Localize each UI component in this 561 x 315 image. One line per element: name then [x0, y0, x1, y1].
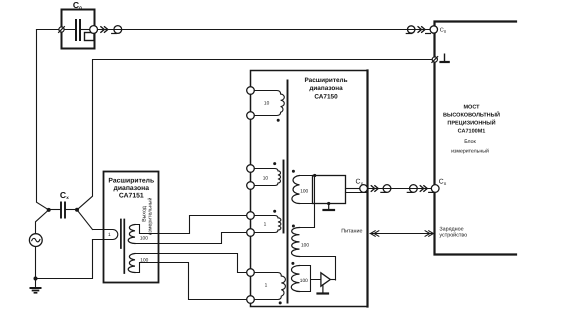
svg-text:СА7151: СА7151	[119, 193, 144, 200]
ground under amplifier	[322, 285, 324, 293]
winding 1 first of CA7150	[254, 216, 281, 233]
connector circle before bridge	[408, 26, 415, 33]
box CA7150	[251, 71, 368, 307]
shield dash	[407, 191, 412, 193]
wire cable	[368, 188, 432, 190]
svg-text:Расширитель: Расширитель	[304, 77, 347, 84]
svg-text:100: 100	[300, 278, 308, 284]
svg-text:ВЫСОКОВОЛЬТНЫЙ: ВЫСОКОВОЛЬТНЫЙ	[443, 112, 500, 119]
svg-text:Расширитель: Расширитель	[108, 177, 154, 184]
shield dash	[112, 33, 117, 35]
label 100	[140, 236, 148, 242]
polarity dot	[292, 170, 295, 173]
wire CA7151 out1 to extender	[159, 216, 247, 234]
polarity dot	[277, 119, 280, 122]
wire detector junction down to winding B	[300, 176, 315, 228]
shield stub rectangle	[85, 33, 95, 41]
svg-text:Блок: Блок	[464, 139, 476, 145]
label charger	[439, 227, 467, 239]
box CA7151	[104, 172, 159, 283]
winding 10 second of CA7150	[254, 169, 280, 186]
svg-text:1: 1	[108, 232, 111, 238]
coax chevrons after C0 box	[101, 27, 108, 33]
transformer T2 core second stage	[287, 81, 289, 303]
transformer T1 core	[121, 220, 124, 274]
winding 100 upper of CA7151	[128, 225, 135, 244]
label 100	[301, 242, 309, 248]
svg-text:100: 100	[300, 189, 308, 195]
coax chevrons	[420, 186, 427, 192]
svg-text:диапазона: диапазона	[114, 185, 150, 192]
connector circle at C0 box output	[90, 26, 98, 34]
label C0	[73, 0, 82, 10]
coax chevrons at bridge input	[418, 27, 425, 33]
svg-text:СА7100М1: СА7100М1	[458, 129, 486, 135]
connector circle Cx on CA7150 edge	[360, 185, 368, 193]
connector circle C0 on bridge edge	[430, 26, 437, 33]
box CA7150 right edge thick	[366, 71, 368, 307]
label 1	[264, 222, 267, 228]
svg-text:ПРЕЦИЗИОННЫЙ: ПРЕЦИЗИОННЫЙ	[447, 120, 495, 127]
ground symbol	[31, 287, 41, 289]
generator G	[29, 234, 42, 247]
polarity dot	[273, 162, 276, 165]
case ground symbol	[444, 54, 446, 61]
ground under detector	[328, 204, 330, 210]
winding 1 second of CA7150	[254, 273, 285, 300]
wire C0 left lead	[37, 29, 76, 31]
wire from Cx right plate	[66, 209, 75, 211]
svg-text:10: 10	[263, 175, 269, 181]
svg-text:диапазона: диапазона	[309, 85, 343, 92]
coax chevrons	[371, 186, 378, 192]
node dot at ground rail	[34, 277, 38, 281]
op-amp A1	[321, 273, 330, 286]
node dot left of Cx	[47, 208, 51, 212]
svg-text:МОСТ: МОСТ	[463, 105, 480, 111]
svg-text:0: 0	[444, 29, 447, 34]
box bridge CA7100M1 (open right side)	[435, 22, 517, 255]
shield dash	[429, 191, 434, 193]
svg-text:x: x	[66, 195, 69, 200]
label Vyhod izmeritelnyj vertical	[141, 198, 153, 236]
svg-text:измерительный: измерительный	[451, 148, 489, 154]
label 1	[265, 282, 268, 288]
label bridge title	[443, 105, 500, 135]
label Cx right	[439, 179, 447, 187]
label Cx	[60, 190, 69, 200]
label 100	[300, 189, 308, 195]
svg-text:устройство: устройство	[439, 233, 467, 239]
wire Cx node up to case rail	[77, 60, 432, 210]
svg-text:измерительный: измерительный	[147, 198, 153, 236]
terminal circles on CA7150 left edge	[247, 87, 255, 95]
shield dash	[381, 191, 386, 193]
connector circle on top wire	[114, 26, 122, 34]
node dot on detector top	[313, 174, 316, 177]
wire generator branch	[36, 210, 49, 234]
slashed-circle terminal at C0 box left	[59, 27, 64, 32]
winding 100 output of CA7150	[292, 176, 300, 204]
svg-text:100: 100	[140, 236, 148, 242]
wire generator to ground	[35, 247, 37, 288]
label CA7150 title	[304, 77, 347, 101]
polarity dot	[279, 301, 282, 304]
winding 100 feedback of CA7150	[291, 266, 299, 292]
connector circle Cx on bridge edge	[431, 185, 439, 193]
wire ground rail to CA7151 winding low end	[36, 240, 93, 279]
slashed-circle terminal on bridge edge	[432, 57, 437, 62]
winding 10 first of CA7150	[254, 91, 284, 116]
svg-text:x: x	[444, 181, 447, 187]
svg-text:C: C	[73, 0, 79, 10]
node dot on detector bottom	[327, 202, 330, 205]
capacitor Cx plates	[61, 203, 65, 218]
svg-text:1: 1	[264, 222, 267, 228]
wire winding B to amplifier output	[300, 257, 336, 281]
capacitor C0 plates	[76, 20, 80, 40]
winding 100 lower of CA7151	[128, 254, 135, 273]
label measuring unit	[451, 139, 489, 155]
label Pitanie	[341, 228, 362, 234]
label 10	[263, 175, 269, 181]
wire left vertical from C0	[37, 30, 49, 210]
label 10	[264, 101, 270, 107]
label Cx	[356, 179, 364, 187]
connector circle mid cable 2	[410, 185, 418, 193]
polarity dot	[273, 210, 276, 213]
wire Cx node down to CA7151 winding	[77, 210, 93, 230]
label 100	[300, 278, 308, 284]
detector block	[313, 176, 346, 204]
wire feedback winding to amplifier	[300, 266, 321, 292]
wire to Cx left plate	[49, 209, 60, 211]
svg-text:100: 100	[140, 258, 148, 264]
winding 100 compensation of CA7150	[291, 228, 299, 257]
shield stub wire	[346, 192, 367, 194]
label C0 small	[440, 28, 447, 34]
svg-text:100: 100	[301, 242, 309, 248]
svg-text:10: 10	[264, 101, 270, 107]
capacitor C0 screen box	[62, 10, 95, 49]
label 1	[108, 232, 111, 238]
wire CA7151 out2 to extender	[159, 233, 247, 244]
transformer T2 core first stage	[283, 161, 285, 233]
shield dash	[406, 33, 411, 35]
wire detector to Cx connector	[346, 188, 360, 190]
polarity dot	[292, 225, 295, 228]
label 100	[140, 258, 148, 264]
power arrow between units	[370, 233, 434, 235]
polarity dot	[291, 262, 294, 265]
svg-text:C: C	[60, 190, 66, 200]
wire amplifier output	[330, 279, 335, 281]
winding 1 of CA7151 (primary, 1 turn)	[93, 230, 118, 240]
svg-text:Питание: Питание	[341, 228, 362, 234]
shield dash	[426, 33, 431, 35]
connector circle mid cable	[383, 185, 391, 193]
wire winding to detector box	[300, 176, 313, 204]
wire C0 right lead	[81, 29, 90, 31]
svg-text:1: 1	[265, 282, 268, 288]
node dot right of Cx	[75, 208, 79, 212]
label CA7151 title	[108, 177, 154, 199]
wire top rail to bridge	[98, 29, 431, 31]
wire CA7151 out4 to extender	[159, 263, 247, 300]
svg-text:СА7150: СА7150	[314, 93, 338, 100]
wire CA7151 out3 to extender	[159, 254, 247, 273]
svg-text:0: 0	[79, 5, 82, 10]
